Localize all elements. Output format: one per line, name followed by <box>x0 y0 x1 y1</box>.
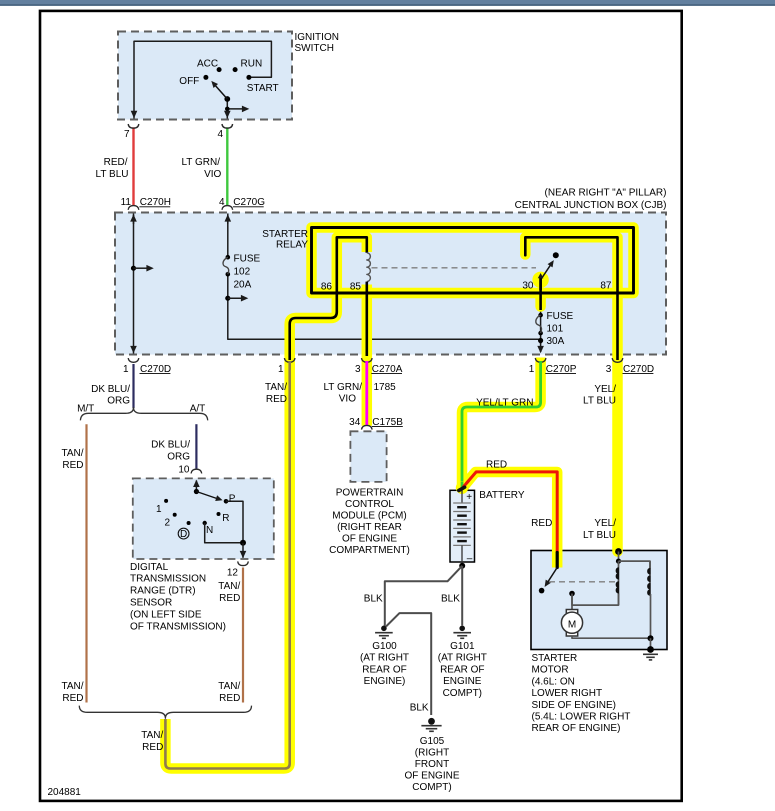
YEL/LT GRN green core <box>462 361 541 487</box>
svg-text:RED: RED <box>266 394 287 405</box>
CJB exit arrows (bottom) <box>130 346 137 353</box>
svg-text:ENGINE: ENGINE <box>443 676 482 687</box>
svg-text:102: 102 <box>234 267 251 278</box>
relay fixed contact stub <box>524 237 527 255</box>
svg-text:TAN/: TAN/ <box>218 681 240 692</box>
svg-text:OFF: OFF <box>179 76 199 87</box>
svg-text:BLK: BLK <box>441 593 460 604</box>
PCM box <box>350 431 386 482</box>
motor feed <box>571 594 573 610</box>
split brace <box>80 408 207 421</box>
svg-text:YEL/: YEL/ <box>594 384 616 395</box>
svg-text:CENTRAL JUNCTION BOX (CJB): CENTRAL JUNCTION BOX (CJB) <box>515 200 667 211</box>
svg-text:RED: RED <box>142 742 163 753</box>
svg-text:7: 7 <box>124 129 130 140</box>
ignition contact dots: ACC RUN OFF START <box>217 67 222 72</box>
relay dashed coil-switch link <box>372 267 537 269</box>
svg-text:COMPT): COMPT) <box>412 782 451 793</box>
svg-text:N: N <box>206 525 213 536</box>
svg-text:DIGITAL: DIGITAL <box>130 562 169 573</box>
svg-text:DK BLU/: DK BLU/ <box>91 384 130 395</box>
wire DK BLU/ORG A/T branch <box>195 424 197 469</box>
svg-text:LT BLU: LT BLU <box>583 395 616 406</box>
DTR pivot dot <box>194 489 199 494</box>
svg-text:IGNITION: IGNITION <box>295 32 339 43</box>
svg-text:12: 12 <box>227 567 239 578</box>
wire: fuse102 output down + across to fuse101 node <box>228 276 541 344</box>
wire: C270G feed to fuse102 <box>227 214 229 258</box>
svg-text:ORG: ORG <box>107 396 130 407</box>
DTR sensor box <box>133 478 274 559</box>
svg-text:3: 3 <box>355 364 361 375</box>
svg-text:YEL/: YEL/ <box>594 518 616 529</box>
relay pin30 stub core <box>539 290 542 310</box>
starter switch lever <box>546 568 557 585</box>
svg-text:LT GRN/: LT GRN/ <box>181 157 220 168</box>
svg-text:A/T: A/T <box>190 404 206 415</box>
svg-text:G101: G101 <box>450 641 475 652</box>
svg-text:REAR OF: REAR OF <box>440 664 484 675</box>
starter relay box border <box>312 228 634 294</box>
highlight: pin30 stub <box>535 293 546 307</box>
TAN/RED core of highlighted run <box>165 361 289 769</box>
svg-text:TAN/: TAN/ <box>61 448 83 459</box>
fuse101 junction dot <box>538 338 543 343</box>
starter solenoid winding left <box>618 561 620 605</box>
svg-text:(ON LEFT SIDE: (ON LEFT SIDE <box>130 609 202 620</box>
starter case ground <box>647 646 654 653</box>
svg-text:(NEAR RIGHT "A" PILLAR): (NEAR RIGHT "A" PILLAR) <box>545 188 667 199</box>
svg-text:1: 1 <box>156 504 162 515</box>
coil bottom link to contact <box>572 594 619 606</box>
ignition branch dot + arrow <box>225 107 230 112</box>
DTR position dots P,1,2,D,R,N <box>224 499 229 504</box>
svg-text:4: 4 <box>219 197 225 208</box>
svg-text:204881: 204881 <box>48 787 82 798</box>
svg-text:2: 2 <box>164 518 170 529</box>
svg-text:ACC: ACC <box>197 58 218 69</box>
DTR lever <box>196 492 219 500</box>
battery negative node dot <box>459 563 465 569</box>
relay movable contact dot <box>553 252 559 258</box>
ignition exit arrows <box>131 111 138 118</box>
ground G100 <box>381 626 387 632</box>
svg-text:86: 86 <box>321 281 333 292</box>
svg-text:101: 101 <box>547 323 564 334</box>
svg-text:SWITCH: SWITCH <box>295 43 334 54</box>
wire: fuse101 to C270P exit <box>540 309 542 352</box>
svg-text:ENGINE): ENGINE) <box>364 676 406 687</box>
svg-text:OF ENGINE: OF ENGINE <box>342 533 397 544</box>
wire TAN/RED from DTR pin12 <box>242 568 244 703</box>
browser top bar <box>0 0 775 4</box>
svg-text:(5.4L: LOWER RIGHT: (5.4L: LOWER RIGHT <box>532 712 631 723</box>
LT GRN/VIO magenta core to PCM <box>365 361 368 425</box>
svg-text:RANGE (DTR): RANGE (DTR) <box>130 586 196 597</box>
svg-text:1: 1 <box>529 364 535 375</box>
svg-text:BLK: BLK <box>364 593 383 604</box>
ignition pivot dot <box>224 96 230 102</box>
relay pin85 core below coil <box>365 282 368 356</box>
svg-text:87: 87 <box>600 281 612 292</box>
highlight: RED run battery to starter <box>462 472 557 568</box>
svg-text:STARTER: STARTER <box>532 653 578 664</box>
svg-text:BATTERY: BATTERY <box>479 490 525 501</box>
relay pin86 core to CJB exit <box>290 292 337 360</box>
svg-text:SIDE OF ENGINE): SIDE OF ENGINE) <box>532 700 616 711</box>
svg-text:TAN/: TAN/ <box>61 681 83 692</box>
wire DK BLU/ORG below C270D <box>132 364 134 408</box>
motor M symbol <box>566 610 577 637</box>
CJB entry arrows (top) <box>133 215 135 224</box>
svg-text:CONTROL: CONTROL <box>345 499 394 510</box>
svg-text:RED: RED <box>219 693 240 704</box>
central junction box (CJB) <box>115 213 666 355</box>
svg-text:D: D <box>180 529 187 540</box>
svg-text:(RIGHT: (RIGHT <box>415 747 449 758</box>
svg-text:10: 10 <box>178 464 190 475</box>
battery positive terminal tick <box>459 487 465 490</box>
svg-text:G105: G105 <box>420 736 445 747</box>
highlight: pin85 wire to PCM connector <box>362 285 373 426</box>
highlight: switch/pin87/YEL-LT BLU run <box>525 237 617 551</box>
ground G105 <box>428 718 435 725</box>
svg-text:TAN/: TAN/ <box>141 730 163 741</box>
svg-text:BLK: BLK <box>410 703 429 714</box>
relay switch lever <box>541 262 552 279</box>
svg-text:FRONT: FRONT <box>415 759 449 770</box>
svg-text:RED: RED <box>62 693 83 704</box>
svg-text:LT BLU: LT BLU <box>583 530 616 541</box>
battery core ends over blob <box>461 482 464 488</box>
ignition lever <box>213 83 227 99</box>
svg-text:ORG: ORG <box>167 452 190 463</box>
starter motor box <box>531 551 667 650</box>
svg-text:+: + <box>466 492 472 503</box>
DTR P and N wiring <box>226 501 243 543</box>
starter fixed contact dot <box>569 591 575 597</box>
merge brace <box>79 706 251 719</box>
svg-text:34: 34 <box>349 417 361 428</box>
DTR exit arrow pin12 <box>242 543 244 558</box>
svg-text:(AT RIGHT: (AT RIGHT <box>360 653 409 664</box>
battery plates <box>461 491 463 504</box>
svg-text:4: 4 <box>217 129 223 140</box>
wire LT GRN/VIO pin4 to C270G <box>226 127 228 206</box>
svg-text:11: 11 <box>121 197 132 208</box>
svg-text:RED/: RED/ <box>104 157 128 168</box>
svg-text:FUSE: FUSE <box>547 311 574 322</box>
svg-text:P: P <box>229 494 236 505</box>
connector cups at CJB bottom <box>128 358 139 362</box>
RED core <box>463 472 557 553</box>
svg-text:TRANSMISSION: TRANSMISSION <box>130 574 206 585</box>
svg-text:REAR OF ENGINE): REAR OF ENGINE) <box>532 723 621 734</box>
fuse 102 <box>226 255 231 260</box>
wire RED/LT BLU pin7 to C270H <box>132 127 134 206</box>
svg-text:30A: 30A <box>547 336 565 347</box>
svg-text:RED: RED <box>62 460 83 471</box>
svg-text:VIO: VIO <box>339 394 356 405</box>
relay coil branch path <box>337 237 367 292</box>
svg-text:START: START <box>247 83 279 94</box>
svg-text:3: 3 <box>606 364 612 375</box>
highlight: YEL-LT GRN run to battery <box>462 358 541 489</box>
starter internal feed wires <box>618 552 620 562</box>
starter feed node dot <box>615 548 622 555</box>
svg-text:RED: RED <box>486 459 507 470</box>
ground G101 <box>459 626 465 632</box>
ignition branch wire <box>227 108 245 110</box>
svg-text:RED: RED <box>531 518 552 529</box>
highlight: pin86/TAN-RED full run <box>165 293 336 769</box>
DTR entry arrow pin10 <box>195 481 197 492</box>
svg-text:COMPT): COMPT) <box>443 688 482 699</box>
svg-text:YEL/LT GRN: YEL/LT GRN <box>476 397 533 408</box>
wire BLK to G101 <box>461 566 463 626</box>
svg-text:RELAY: RELAY <box>276 239 308 250</box>
svg-text:M/T: M/T <box>77 404 94 415</box>
svg-text:TAN/: TAN/ <box>265 382 287 393</box>
svg-text:VIO: VIO <box>204 169 221 180</box>
svg-text:REAR OF: REAR OF <box>362 664 406 675</box>
svg-text:G100: G100 <box>372 641 397 652</box>
battery box <box>450 490 475 562</box>
wire TAN/RED M/T branch <box>85 424 87 702</box>
svg-text:M: M <box>568 619 576 630</box>
motor ground run <box>572 594 651 638</box>
svg-text:–: – <box>467 553 473 564</box>
wire BLK G105 branch <box>386 613 431 715</box>
svg-text:RED: RED <box>219 593 240 604</box>
relay pin30 terminal pin <box>539 277 542 290</box>
svg-text:R: R <box>222 513 229 524</box>
svg-text:TAN/: TAN/ <box>218 581 240 592</box>
svg-text:SENSOR: SENSOR <box>130 598 172 609</box>
wire BLK to G100 <box>385 566 462 626</box>
fuse102 junction + arrow <box>225 296 230 301</box>
svg-text:COMPARTMENT): COMPARTMENT) <box>329 545 410 556</box>
battery terminal highlight blob <box>456 482 468 494</box>
svg-text:MODULE (PCM): MODULE (PCM) <box>332 510 406 521</box>
svg-text:LT GRN/: LT GRN/ <box>323 382 362 393</box>
highlight: relay box outline <box>312 228 634 294</box>
relay switch feed to pin87 <box>525 237 617 293</box>
svg-text:OF TRANSMISSION): OF TRANSMISSION) <box>130 621 226 632</box>
svg-text:FUSE: FUSE <box>234 254 261 265</box>
wire: CJB left vertical <box>133 214 135 354</box>
highlight: relay coil branch <box>337 237 367 295</box>
svg-text:30: 30 <box>522 281 534 292</box>
highlight: pin30 terminal circle <box>532 272 548 288</box>
relay pin87 core to CJB exit <box>616 292 619 360</box>
svg-text:MOTOR: MOTOR <box>532 665 569 676</box>
ignition switch internal wire <box>134 41 271 118</box>
svg-text:POWERTRAIN: POWERTRAIN <box>336 487 404 498</box>
svg-text:1: 1 <box>123 364 129 375</box>
svg-text:LT BLU: LT BLU <box>96 169 129 180</box>
svg-text:20A: 20A <box>234 280 252 291</box>
fuse 101 <box>538 313 543 318</box>
svg-text:85: 85 <box>350 281 362 292</box>
starter solenoid winding right <box>649 561 651 594</box>
svg-text:(4.6L: ON: (4.6L: ON <box>532 676 575 687</box>
CJB left wire junction + arrow <box>131 266 136 271</box>
svg-text:LOWER RIGHT: LOWER RIGHT <box>532 688 603 699</box>
svg-text:(AT RIGHT: (AT RIGHT <box>438 653 487 664</box>
svg-text:1: 1 <box>278 364 284 375</box>
svg-text:1785: 1785 <box>374 382 397 393</box>
svg-text:DK BLU/: DK BLU/ <box>151 440 190 451</box>
svg-text:RUN: RUN <box>241 58 263 69</box>
black stub in starter box <box>556 553 559 568</box>
ignition pivot to pin4 wire <box>226 99 228 119</box>
relay coil winding <box>367 253 371 282</box>
D circle symbol <box>178 528 189 539</box>
starter dashed link <box>549 581 616 583</box>
svg-text:OF ENGINE: OF ENGINE <box>404 770 459 781</box>
svg-text:STARTER: STARTER <box>262 229 308 240</box>
svg-text:(RIGHT REAR: (RIGHT REAR <box>337 522 402 533</box>
ignition switch box <box>118 32 292 120</box>
